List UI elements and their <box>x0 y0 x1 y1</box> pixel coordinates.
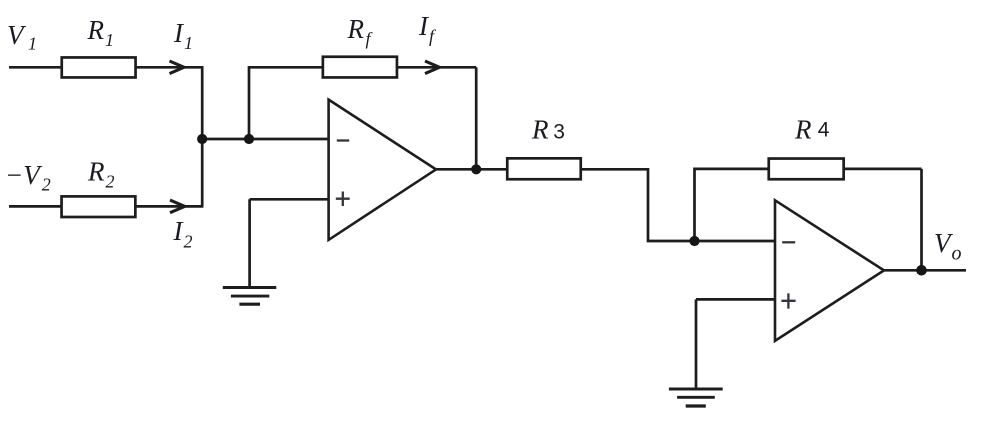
svg-text:−V2: −V2 <box>5 160 51 195</box>
svg-text:I2: I2 <box>173 216 193 252</box>
svg-text:Vo: Vo <box>934 228 962 265</box>
svg-text:3: 3 <box>553 121 565 144</box>
svg-text:4: 4 <box>818 119 830 142</box>
svg-text:R: R <box>794 115 812 145</box>
svg-text:If: If <box>418 11 437 46</box>
svg-text:R: R <box>531 114 549 144</box>
svg-text:V1: V1 <box>7 20 37 54</box>
svg-text:Rf: Rf <box>347 14 374 49</box>
svg-text:R2: R2 <box>87 157 115 192</box>
svg-text:R1: R1 <box>87 15 115 50</box>
svg-text:I1: I1 <box>173 18 193 53</box>
